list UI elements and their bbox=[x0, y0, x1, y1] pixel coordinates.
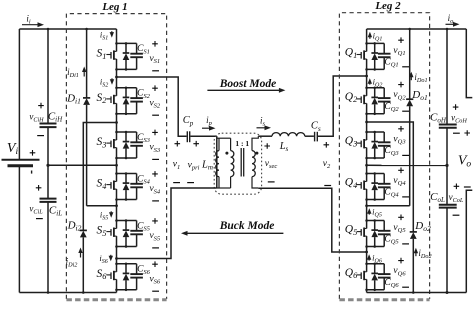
wire primary bottom to S5-S6 midpoint bbox=[117, 188, 217, 259]
wire left edge bottom bbox=[18, 166, 20, 293]
svg-text:1 : 1: 1 : 1 bbox=[235, 139, 249, 148]
wire secondary bottom to Q5-Q6 midpoint bbox=[258, 188, 366, 252]
label v1 minus bbox=[173, 182, 180, 184]
capacitor CiL bbox=[40, 199, 57, 202]
magnetizing inductance Lm winding bbox=[216, 138, 231, 188]
wire Di1 to S4-S5 midpoint bbox=[87, 205, 117, 207]
wire right edge bottom terminal bbox=[466, 190, 472, 292]
svg-text:Leg 1: Leg 1 bbox=[101, 1, 127, 13]
transformer secondary winding bbox=[252, 136, 258, 188]
wire top rail right bbox=[367, 28, 467, 30]
label Vo plus bbox=[464, 130, 470, 136]
capacitor CiH bbox=[40, 124, 57, 128]
label vCiH bbox=[29, 103, 44, 136]
switch Q6 (MOSFET with body diode) bbox=[345, 263, 384, 292]
current arrow iQ1 bbox=[369, 36, 371, 39]
capacitor CoL bbox=[439, 205, 457, 208]
switch Q1 (MOSFET with body diode) bbox=[345, 42, 384, 71]
node mid rail junction left bbox=[46, 164, 49, 167]
switch S1 (MOSFET with body diode) bbox=[97, 42, 137, 71]
current arrow iS2 bbox=[111, 78, 113, 80]
current arrow iS6 bbox=[110, 255, 112, 257]
wire top rail to Do1 bbox=[409, 29, 411, 99]
polarity dot secondary bbox=[255, 152, 258, 155]
wire top rail left bbox=[19, 28, 116, 30]
wire mid rail left bbox=[48, 164, 117, 166]
switch S4 (MOSFET with body diode) bbox=[97, 172, 137, 201]
dashed box Leg 2 bbox=[339, 13, 429, 300]
wire secondary to Ls bbox=[258, 135, 272, 137]
wire Di2 anode to bottom rail bbox=[82, 237, 84, 292]
current arrow iS1 bbox=[111, 31, 113, 33]
current arrow is bbox=[257, 127, 266, 129]
wire leg2 conductor segments bbox=[366, 29, 368, 293]
wire Cp to transformer bbox=[190, 135, 216, 137]
wire mid rail right bbox=[367, 164, 447, 166]
wire bottom rail right bbox=[367, 292, 467, 294]
label Vo minus bbox=[464, 186, 471, 188]
label vCoH bbox=[451, 104, 467, 133]
wire top rail to Di1 bbox=[86, 29, 88, 98]
label v2 plus bbox=[324, 142, 330, 148]
wire Ls to Cs bbox=[305, 135, 314, 137]
wire leg1 conductor segments bbox=[116, 29, 118, 293]
switch S6 (MOSFET with body diode) bbox=[97, 263, 137, 292]
capacitor CS6 bbox=[130, 261, 161, 291]
capacitor CS4 bbox=[130, 171, 161, 201]
wire left edge top bbox=[18, 29, 20, 160]
capacitor CoH bbox=[439, 125, 457, 128]
diode Di2 bbox=[80, 230, 87, 237]
diode Di1 bbox=[83, 98, 90, 105]
capacitor CQ5 bbox=[378, 215, 409, 247]
arrow Buck Mode bbox=[186, 232, 283, 234]
current arrow iQ2 bbox=[369, 83, 371, 85]
capacitor CS2 bbox=[130, 85, 161, 115]
node mid rail junction right bbox=[445, 164, 448, 167]
capacitor CQ6 bbox=[378, 258, 409, 290]
capacitor Cs bbox=[315, 132, 318, 142]
label vsec plus bbox=[264, 143, 270, 149]
wire CoL to bottom rail bbox=[446, 208, 448, 293]
transformer primary winding bbox=[231, 138, 234, 188]
capacitor CS1 bbox=[130, 41, 160, 71]
dashed box Leg 1 bbox=[66, 14, 166, 300]
switch Q5 (MOSFET with body diode) bbox=[345, 219, 384, 248]
label vsec minus bbox=[268, 181, 275, 183]
diode Do1 bbox=[406, 98, 413, 100]
wire CiH to CiL bbox=[47, 127, 49, 198]
switch S5 (MOSFET with body diode) bbox=[97, 219, 137, 248]
polarity dot primary bbox=[225, 152, 228, 155]
label vCoL bbox=[449, 184, 464, 216]
current arrow iDi2 bbox=[80, 252, 82, 258]
wire right edge top terminal bbox=[466, 29, 472, 98]
switch S3 (MOSFET with body diode) bbox=[97, 131, 137, 160]
wire CiL to bottom rail bbox=[47, 202, 49, 293]
current arrow io bbox=[446, 23, 455, 25]
wire S2-S3 midpoint to Di2 bbox=[83, 123, 116, 231]
capacitor CQ2 bbox=[378, 82, 409, 114]
current arrow iDo2 bbox=[415, 252, 417, 256]
wire Q2-Q3 midpoint to Do2 bbox=[367, 122, 414, 232]
label v2 minus bbox=[324, 185, 331, 187]
arrow Boost Mode bbox=[207, 89, 280, 91]
current arrow ii bbox=[22, 24, 39, 26]
svg-text:Buck Mode: Buck Mode bbox=[219, 220, 275, 232]
current arrow iQ5 bbox=[368, 213, 370, 215]
capacitor CS5 bbox=[130, 218, 161, 248]
node mid rail at Q3-Q4 bbox=[365, 164, 368, 167]
switch Q4 (MOSFET with body diode) bbox=[345, 172, 384, 201]
capacitor CS3 bbox=[130, 130, 161, 160]
plus sign Vi bbox=[30, 150, 36, 156]
transformer core bbox=[241, 148, 244, 177]
label vCiL bbox=[29, 185, 43, 219]
transformer T1 dotted box bbox=[214, 133, 261, 194]
wire Cs to leg2 bbox=[318, 76, 367, 136]
transformer primary bus bbox=[216, 136, 218, 188]
label vpri minus bbox=[187, 182, 194, 184]
capacitor CQ1 bbox=[378, 37, 409, 69]
inductor Ls bbox=[272, 133, 305, 137]
current arrow ip bbox=[202, 127, 210, 129]
label vpri plus bbox=[193, 141, 199, 147]
node mid rail at S3-S4 bbox=[115, 164, 118, 167]
wire Do1 to Q4-Q5 midpoint bbox=[367, 205, 410, 207]
capacitor CQ4 bbox=[378, 168, 409, 200]
svg-text:Boost Mode: Boost Mode bbox=[219, 78, 277, 90]
switch Q3 (MOSFET with body diode) bbox=[345, 131, 384, 160]
capacitor Cp bbox=[187, 131, 189, 142]
switch Q2 (MOSFET with body diode) bbox=[345, 87, 384, 116]
current arrow iQ6 bbox=[368, 259, 370, 261]
wire bottom rail left bbox=[19, 292, 116, 294]
current arrow iDo1 bbox=[410, 76, 412, 80]
label v1 plus bbox=[175, 141, 181, 147]
capacitor CQ3 bbox=[378, 126, 409, 158]
wire Di1 anode down bbox=[86, 105, 88, 206]
battery Vi bbox=[2, 160, 40, 174]
wire CoH to CoL bbox=[446, 128, 448, 205]
diode Do2 bbox=[410, 231, 417, 233]
switch S2 (MOSFET with body diode) bbox=[97, 87, 137, 116]
current arrow iDi1 bbox=[83, 71, 85, 77]
wire CiH branch bbox=[47, 29, 49, 123]
svg-text:Leg 2: Leg 2 bbox=[374, 0, 401, 12]
wire Do2 anode to bottom rail bbox=[412, 239, 414, 293]
wire S1-S2 midpoint to Cp bbox=[117, 77, 187, 136]
wire Do1 anode down bbox=[409, 106, 411, 206]
current arrow iS5 bbox=[110, 211, 112, 213]
wire CoH branch bbox=[446, 29, 448, 124]
